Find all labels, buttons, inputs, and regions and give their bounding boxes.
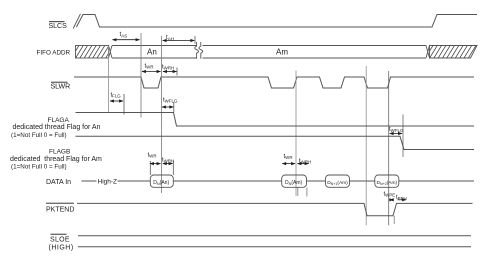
bus time-break squiggle 1 — [195, 42, 199, 59]
signal label FLAGB block — [10, 148, 102, 170]
tick bubble1 right edge up — [172, 161, 174, 175]
svg-text:DATA In: DATA In — [46, 179, 71, 186]
tick at tFLG right end — [123, 94, 125, 115]
dimension tWR arrow (data setup 2) — [282, 163, 295, 165]
svg-text:tWR: tWR — [148, 153, 157, 159]
wire DATA segment between bubble2 and bubble3 — [307, 180, 326, 182]
dimension tAS arrow — [113, 39, 140, 41]
svg-text:DN(Am): DN(Am) — [285, 180, 303, 186]
signal label SLCS (active-low overbar) — [49, 22, 68, 30]
svg-text:Am: Am — [276, 48, 288, 57]
tick below PKTEND rise — [393, 216, 395, 224]
reference line at SLWR rise 2 (x=296) — [295, 71, 297, 197]
wire SLCS waveform — [77, 15, 478, 28]
svg-text:PKTEND: PKTEND — [46, 207, 74, 214]
svg-text:tWFLG: tWFLG — [163, 98, 178, 104]
svg-text:DN+1(Am): DN+1(Am) — [327, 180, 348, 186]
FIFO ADDR right hatched region — [421, 45, 486, 59]
svg-text:DN+2(Am): DN+2(Am) — [377, 180, 398, 186]
svg-text:tPEH: tPEH — [396, 195, 407, 201]
tick below bubble2 left — [297, 188, 299, 197]
data bubble DN(An) — [150, 175, 173, 187]
svg-text:SLOE: SLOE — [50, 237, 70, 244]
dimension tWFLG arrow (FLAGB) — [390, 133, 402, 135]
dimension tWRH arrow (data hold 1) — [163, 163, 173, 165]
reference line at SLWR fall 4 (x=366.2) — [365, 66, 367, 225]
svg-text:tWPE: tWPE — [384, 192, 396, 198]
dimension tWPE arrow — [390, 199, 393, 201]
bus An segment — [112, 46, 197, 59]
reference line at address valid (x=108.5) — [108, 46, 110, 113]
svg-text:FIFO ADDR: FIFO ADDR — [37, 50, 71, 57]
dimension tPEH arrow — [398, 199, 407, 201]
svg-text:SLCS: SLCS — [49, 23, 68, 30]
svg-text:tWRH: tWRH — [162, 65, 174, 71]
svg-text:tWFLG: tWFLG — [389, 127, 404, 133]
tick below bubble2 right — [306, 188, 308, 197]
svg-text:An: An — [147, 48, 157, 57]
signal label PKTEND (active-low overbar) — [46, 203, 74, 213]
svg-text:FLAGA: FLAGA — [48, 117, 70, 124]
wire DATA segment between bubble3 and bubble4 — [350, 180, 375, 182]
svg-text:dedicated thread Flag for Am: dedicated thread Flag for Am — [10, 156, 102, 163]
bus transition X at end of Am — [426, 46, 430, 59]
wire DATA segment between bubble1 and bubble2 — [173, 180, 281, 182]
bus time-break squiggle 2 — [199, 42, 203, 59]
wire FLAGA waveform — [76, 113, 475, 127]
svg-text:High-Z: High-Z — [98, 179, 118, 186]
bus transition X at address valid — [109, 46, 113, 59]
wire PKTEND waveform — [77, 203, 473, 215]
FIFO ADDR left hatched region — [67, 45, 119, 59]
wire DATA high-z segment 2 — [118, 180, 151, 182]
svg-text:(1=Not Full 0 = Full): (1=Not Full 0 = Full) — [11, 164, 67, 171]
reference line at SLWR rise 1 (x=161.5) — [161, 36, 163, 193]
data bubble DN(Am) — [282, 175, 307, 187]
dimension tWRH arrow (data hold 2) — [298, 163, 309, 165]
svg-text:tWRH: tWRH — [162, 158, 174, 164]
wire SLOE lower line — [78, 246, 471, 248]
svg-text:DN(An): DN(An) — [153, 180, 169, 186]
svg-text:tWR: tWR — [145, 64, 154, 70]
svg-text:tAS: tAS — [120, 31, 128, 38]
reference line at SLWR rise 4 (x=388.7) — [388, 71, 390, 225]
data bubble DN+1(Am) — [326, 175, 350, 187]
svg-text:tWR: tWR — [284, 154, 293, 160]
data bubble DN+2(Am) — [375, 175, 399, 187]
dimension tFLG arrow — [110, 100, 123, 102]
reference tick at FLAGB fall (x=403) — [402, 115, 404, 158]
svg-text:FLAGB: FLAGB — [49, 148, 70, 155]
dimension tWR arrow (data setup 1) — [150, 163, 161, 165]
tick at FLAGA fall — [173, 102, 175, 113]
signal label FLAGA block — [11, 117, 101, 139]
wire SLWR waveform — [74, 77, 474, 88]
reference line at SLWR fall (x=141) — [140, 33, 142, 118]
signal label SLWR (active-low overbar) — [51, 82, 71, 90]
wire SLOE upper line — [78, 235, 471, 237]
svg-text:SLWR: SLWR — [51, 84, 71, 91]
wire FLAGB waveform — [76, 136, 475, 149]
dimension tWR arrow — [142, 71, 161, 73]
svg-text:(1=Not Full 0 = Full): (1=Not Full 0 = Full) — [11, 132, 67, 139]
break slash on SLCS rising edge — [73, 14, 80, 29]
signal label SLOE (active-low overbar, held high) — [49, 234, 74, 251]
wire DATA segment after bubble4 — [399, 180, 474, 182]
tick at tAH right end — [194, 36, 196, 44]
svg-text:(HIGH): (HIGH) — [49, 245, 74, 252]
svg-text:tFLG: tFLG — [111, 93, 122, 99]
tick at tWRH right end — [176, 68, 178, 76]
svg-text:dedicated thread Flag for An: dedicated thread Flag for An — [13, 124, 101, 131]
dimension tWRH arrow — [163, 71, 177, 73]
wire DATA high-z segment left — [82, 180, 97, 182]
dimension tAH arrow — [163, 40, 195, 42]
dimension tWFLG arrow (FLAGA) — [162, 106, 173, 108]
bus Am segment — [203, 46, 427, 59]
tick bubble1 left edge up — [149, 161, 151, 175]
